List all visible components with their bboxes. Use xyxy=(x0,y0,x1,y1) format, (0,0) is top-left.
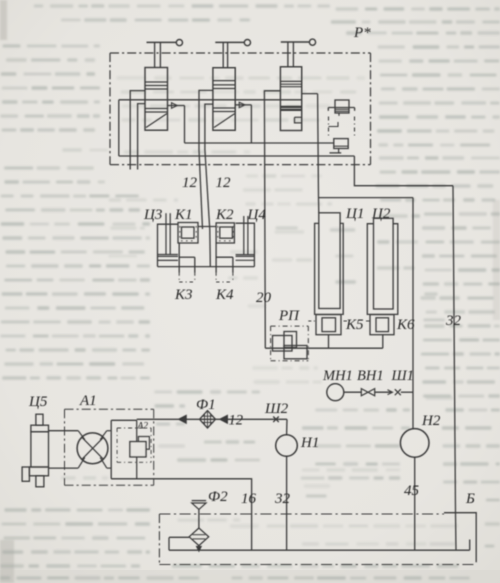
wire: valve 1 left port A xyxy=(130,91,145,170)
A2 sub-block solid frame xyxy=(110,420,112,479)
pilot valve 1 lever xyxy=(147,41,177,43)
wire: collector bus to drain valve box xyxy=(185,142,334,144)
pilot valve 2 diagonal xyxy=(214,114,235,128)
cylinder C4 piston lines xyxy=(236,254,255,256)
pilot valve 2 body xyxy=(213,68,235,131)
wire: through-bus entering valves 1-3 xyxy=(119,99,302,101)
wire K1-K2 connector xyxy=(198,226,216,228)
wire: bus drop to lower bus xyxy=(118,100,120,156)
wire corner down to pump H1 xyxy=(286,419,288,434)
valve K1 inner element xyxy=(182,227,195,238)
tank B dash-dot outline xyxy=(159,513,444,515)
cylinder C4 rod xyxy=(243,216,245,255)
wire K6 drop xyxy=(382,335,384,349)
cylinder C5 top rod xyxy=(36,414,43,425)
wire SH1 to riser xyxy=(401,391,413,393)
svg-text:32: 32 xyxy=(445,313,462,329)
svg-text:16: 16 xyxy=(241,491,257,507)
wire: lower bus drop right xyxy=(354,156,453,186)
cylinder C3 piston lines xyxy=(158,254,179,256)
RP element square C xyxy=(284,346,307,359)
cylinder C2 body xyxy=(367,224,398,315)
hydraulic motor funnel right xyxy=(100,431,107,440)
valve K2 body xyxy=(216,223,234,243)
svg-text:12: 12 xyxy=(182,175,198,191)
cylinder C2 plunger xyxy=(374,218,394,309)
wire C5 to motor upper link xyxy=(49,430,79,432)
filter F2 diamond xyxy=(189,528,209,546)
svg-text:Ф1: Ф1 xyxy=(196,397,216,413)
pilot dash-dot marks K5 to K6 xyxy=(344,320,348,322)
cylinder C5 side foot xyxy=(22,467,29,481)
wire pipe right riser xyxy=(469,540,471,551)
relief valve step detail xyxy=(329,122,339,127)
pump H2 xyxy=(400,429,429,458)
svg-text:Ш2: Ш2 xyxy=(264,401,289,417)
wire: valve 2 output arrow xyxy=(235,104,251,106)
pilot valve 2 lever xyxy=(215,41,244,43)
RP element square A xyxy=(273,336,293,352)
wire pump output line xyxy=(137,418,287,420)
valve A2 connectors xyxy=(136,420,138,441)
svg-text:Ш1: Ш1 xyxy=(391,368,414,384)
svg-text:20: 20 xyxy=(256,290,272,306)
wire suction pipe inside tank xyxy=(169,549,470,551)
svg-text:ВН1: ВН1 xyxy=(357,368,384,384)
wire: return line 32 right side xyxy=(453,186,456,551)
valve A2 dashed box xyxy=(117,427,151,429)
control block frame P* (dash-dot enclosure) xyxy=(110,52,371,54)
wire bottom bus to tank (line 16) xyxy=(111,479,251,550)
svg-text:Ф2: Ф2 xyxy=(208,489,228,505)
wire bottom bus of cylinder block xyxy=(158,266,255,268)
wire C5 to motor lower link xyxy=(49,467,79,469)
pilot valve 1 internal lines xyxy=(145,81,168,83)
valve K3 step and dashed box xyxy=(178,243,180,273)
wire: pressure riser down to cylinder block xyxy=(318,94,319,213)
svg-text:45: 45 xyxy=(404,483,420,499)
svg-text:Ц4: Ц4 xyxy=(247,207,267,223)
svg-text:К4: К4 xyxy=(215,287,234,303)
cylinder C5 body xyxy=(31,432,49,467)
valve VN1 (bowtie) xyxy=(361,389,368,396)
wire: supply header over cylinders xyxy=(319,197,414,199)
wire: lower bus of control block xyxy=(119,155,355,157)
cylinder C5 bottom rod xyxy=(36,476,44,487)
quick coupling SH2 (cross) xyxy=(273,417,279,423)
svg-text:А1: А1 xyxy=(79,393,97,409)
flow divider RP dashed box xyxy=(271,325,309,327)
valve K2 inner element xyxy=(220,227,233,238)
quick coupling SH1 (cross) xyxy=(395,389,401,395)
wire: valve 1 output arrow xyxy=(168,105,185,107)
svg-text:Н1: Н1 xyxy=(300,435,319,451)
svg-text:Б: Б xyxy=(465,491,475,507)
cylinder C4 body xyxy=(236,223,255,266)
pilot valve 3 internal lines xyxy=(280,80,301,82)
valve A2 small rect xyxy=(138,437,149,450)
pilot valve 1 diagonal xyxy=(146,114,167,128)
hydraulic motor funnel left xyxy=(78,431,85,440)
tank B solid top-right corner xyxy=(444,513,476,563)
wire breather stem xyxy=(198,510,200,529)
cylinder C3 rod xyxy=(165,213,167,254)
cylinder C1 body xyxy=(315,223,344,314)
svg-text:Ц1: Ц1 xyxy=(345,206,364,222)
valve K1 dash-dot marks xyxy=(179,226,181,241)
wire: valve 3 right port to pressure riser xyxy=(302,93,318,95)
wire: valve 2 left port A (line 12 left) xyxy=(199,90,213,229)
svg-text:МН1: МН1 xyxy=(322,368,353,384)
wire pipe left riser xyxy=(168,538,170,551)
pilot valve 2 stem xyxy=(222,42,224,67)
valve K5 inner element xyxy=(322,318,336,332)
RP element square B xyxy=(284,332,297,348)
pilot valve 3 body xyxy=(280,67,301,131)
wire H2 suction line 45 xyxy=(414,457,416,550)
cylinder C5 lower flange xyxy=(29,467,48,476)
pressure gauge MN1 xyxy=(327,384,344,401)
svg-text:К5: К5 xyxy=(345,317,364,333)
arrowhead left 2 xyxy=(220,415,228,423)
pilot valve 3 lever xyxy=(281,41,309,43)
breather above filter F2 xyxy=(192,500,206,502)
pump H1 xyxy=(276,435,298,457)
pilot valve 1 stem xyxy=(154,42,156,67)
svg-text:Ц3: Ц3 xyxy=(143,207,162,223)
cylinder C1 plunger xyxy=(319,213,340,309)
wire: valve 3 left port, line 20 drop xyxy=(264,91,280,348)
svg-text:К3: К3 xyxy=(174,287,192,303)
hydraulic motor cross xyxy=(82,437,104,459)
drain box tank stub xyxy=(338,149,340,153)
svg-text:Р*: Р* xyxy=(353,25,371,41)
relief valve bottom stub xyxy=(338,113,340,116)
wire H1 to tank (line 32) xyxy=(286,456,288,550)
svg-text:Ц5: Ц5 xyxy=(28,394,48,410)
pilot valve 1 body xyxy=(145,68,168,131)
pilot valve 3 notch detail xyxy=(295,116,302,118)
wire: valve 2 left port B (line 12 right) xyxy=(205,104,213,267)
relief valve dashed sides xyxy=(328,117,330,137)
svg-text:12: 12 xyxy=(229,413,244,429)
svg-text:Н2: Н2 xyxy=(421,413,441,429)
svg-text:К2: К2 xyxy=(215,207,234,223)
wire K5 drop xyxy=(328,335,330,349)
pilot valve 3 stem xyxy=(287,42,289,67)
wire: valve 1 left port B xyxy=(138,104,145,170)
cylinder C5 upper flange xyxy=(31,425,49,432)
cylinder C3 body xyxy=(158,224,179,266)
valve K2 dash-dot marks xyxy=(217,226,219,241)
svg-text:32: 32 xyxy=(274,491,291,507)
valve K6 inner element xyxy=(376,318,389,332)
wire to SH1 xyxy=(375,391,392,393)
relief valve through-line with hooks xyxy=(328,107,354,109)
valve K6 body xyxy=(370,315,394,335)
wire: riser down to pump H2 xyxy=(412,198,414,429)
svg-text:12: 12 xyxy=(216,175,232,191)
hydraulic motor circle xyxy=(77,433,108,464)
svg-text:К6: К6 xyxy=(396,317,415,333)
wire feed bus line 20 to K5 K6 xyxy=(265,347,383,349)
wire gauge line xyxy=(344,391,362,393)
svg-text:РП: РП xyxy=(278,308,300,324)
valve K1 body xyxy=(178,223,198,244)
A1 dash-dot enclosure xyxy=(65,408,154,410)
drain valve box xyxy=(334,139,348,149)
valve A2 inner square xyxy=(130,442,146,457)
arrowhead left 1 xyxy=(179,415,187,423)
svg-text:А2: А2 xyxy=(137,422,149,432)
valve K5 body xyxy=(316,315,341,335)
filter F2 outlet arrow xyxy=(198,546,200,548)
valve K4 step and dashed box xyxy=(215,243,217,273)
filter F1 diamond xyxy=(200,411,216,428)
pilot dash-dot line RP to K5 xyxy=(308,320,316,322)
svg-text:К1: К1 xyxy=(174,207,192,223)
relief valve (top right, upper square) xyxy=(335,100,349,113)
pilot valve 2 internal lines xyxy=(213,80,235,82)
